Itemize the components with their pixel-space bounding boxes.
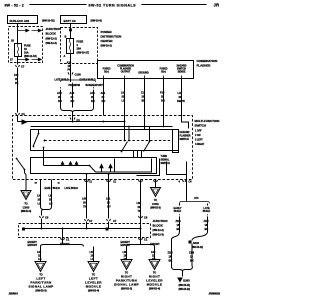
connector C7 b xyxy=(107,219,117,223)
export label right xyxy=(150,243,160,246)
hazard contact U wire xyxy=(167,162,187,175)
header right rule xyxy=(142,4,207,6)
svg-text:F32: F32 xyxy=(14,73,19,77)
node deck B tap right xyxy=(108,173,110,175)
off page triangle T1 xyxy=(40,250,42,262)
lever A1 xyxy=(33,130,40,148)
svg-text:TN: TN xyxy=(83,205,87,209)
wire L60 right label xyxy=(137,201,142,213)
except export label right xyxy=(121,241,131,247)
multi-function switch housing (dashed) xyxy=(13,116,193,180)
MFS pin wires to C7 pair xyxy=(86,174,88,219)
svg-text:G263: G263 xyxy=(183,279,190,283)
junction block lower housing (dashed) xyxy=(19,224,151,238)
flasher wire 3 label xyxy=(141,91,145,103)
svg-text:2 ON: 2 ON xyxy=(195,134,201,137)
wire T3 label xyxy=(123,250,128,261)
MFS pin C301 wire xyxy=(155,180,157,188)
merge L9 xyxy=(41,207,52,212)
alt wire b xyxy=(72,84,74,108)
PREMIUM label xyxy=(69,84,80,87)
svg-text:MULTI-FUNCTION: MULTI-FUNCTION xyxy=(195,119,220,123)
svg-text:SIGNAL LAMP: SIGNAL LAMP xyxy=(114,283,139,287)
node feed junction xyxy=(72,121,74,123)
svg-text:DB: DB xyxy=(161,99,165,103)
connector C100 xyxy=(68,72,81,76)
svg-text:(8W-10-2): (8W-10-2) xyxy=(101,44,112,48)
svg-text:(8W-10-27): (8W-10-27) xyxy=(77,51,90,55)
svg-text:B: B xyxy=(65,35,67,39)
pin A xyxy=(64,54,66,58)
flasher wire 4 label xyxy=(160,91,165,103)
svg-text:20A: 20A xyxy=(77,47,82,51)
branch arrow top a xyxy=(18,29,29,31)
svg-text:RD: RD xyxy=(91,99,95,103)
svg-text:(8W-12-2): (8W-12-2) xyxy=(46,37,57,41)
svg-text:RD: RD xyxy=(58,99,62,103)
wire fuse 2 output xyxy=(70,54,72,67)
svg-text:LG: LG xyxy=(49,202,53,206)
wire fuse 15 output xyxy=(17,57,19,65)
early/late pins xyxy=(40,180,42,193)
svg-text:DISTRIBUTION: DISTRIBUTION xyxy=(101,35,122,39)
off page triangle T4 xyxy=(154,250,156,260)
dashed bracket marks xyxy=(180,214,208,217)
early build label xyxy=(174,207,182,213)
svg-text:J988W-8: J988W-8 xyxy=(9,293,19,296)
svg-text:FUSE: FUSE xyxy=(24,44,31,48)
flasher wire 5 xyxy=(182,79,189,129)
wire from RUN-ACC to fuse 15 xyxy=(17,24,19,44)
connector C7 junction block xyxy=(16,65,25,69)
flasher wire 5 label xyxy=(177,91,185,103)
svg-text:(8W-52-3): (8W-52-3) xyxy=(150,207,161,210)
svg-text:(8W-12-16): (8W-12-16) xyxy=(24,54,37,58)
svg-text:Z1M: Z1M xyxy=(168,251,173,255)
split bracket right xyxy=(127,243,155,247)
svg-text:BATT A0: BATT A0 xyxy=(64,19,76,23)
svg-text:JUNCTION: JUNCTION xyxy=(46,27,61,31)
svg-text:SENSE: SENSE xyxy=(178,71,186,74)
lever A2 xyxy=(121,142,128,153)
wire A70 xyxy=(70,67,72,81)
svg-text:OUTPUT: OUTPUT xyxy=(121,71,131,74)
svg-text:RD: RD xyxy=(71,99,75,103)
svg-text:A70: A70 xyxy=(67,61,72,65)
ground wire b2 xyxy=(191,244,193,267)
fuse 15 xyxy=(15,44,22,57)
svg-text:BK: BK xyxy=(177,227,181,231)
alt wire c label xyxy=(90,91,95,103)
off page symbol C300 xyxy=(21,191,31,200)
svg-text:SWITCH: SWITCH xyxy=(161,162,170,165)
deck B up arrow 1 xyxy=(100,165,103,173)
wire feed battery horizontal xyxy=(18,121,125,123)
MFS ground pin ticks xyxy=(179,180,193,184)
flasher wire 2 label xyxy=(121,91,125,103)
flasher wire 1 label xyxy=(101,91,106,103)
hazard switch label xyxy=(180,131,191,141)
svg-text:1 OFF: 1 OFF xyxy=(195,130,202,133)
MFS pin C300 wire xyxy=(25,180,27,191)
pin label fused b+ 1 xyxy=(103,68,111,74)
corner footer left xyxy=(9,293,19,296)
connector C1 bottom right xyxy=(139,238,148,242)
svg-text:B(+): B(+) xyxy=(161,71,166,74)
ref 8W-10-8 xyxy=(91,19,102,23)
deck B lever step xyxy=(90,166,96,173)
svg-text:COMBINATION: COMBINATION xyxy=(197,59,218,63)
svg-text:(8W-12-3): (8W-12-3) xyxy=(153,233,164,237)
svg-text:(8W-52-3): (8W-52-3) xyxy=(35,289,46,293)
splice dot B+ xyxy=(69,29,72,32)
wire T2 label xyxy=(90,250,95,261)
deck B riser wire xyxy=(114,159,116,173)
svg-text:BK: BK xyxy=(142,99,146,103)
svg-text:EXPORT: EXPORT xyxy=(28,244,38,247)
combination flasher box xyxy=(98,61,194,79)
node A2b top xyxy=(128,126,130,128)
svg-text:EARLY BUILD: EARLY BUILD xyxy=(45,187,61,190)
deck B contact tick 1 xyxy=(61,162,63,166)
node flasher output junction xyxy=(103,121,105,123)
node RUN-ACC A31 xyxy=(8,16,38,24)
deck A-B pin stubs xyxy=(133,151,135,158)
wire lever A2 drop xyxy=(124,122,126,141)
C301 label xyxy=(150,199,161,210)
build bracket dashes xyxy=(61,83,94,108)
wire stalk down xyxy=(24,170,26,174)
svg-text:L61: L61 xyxy=(106,197,111,201)
svg-text:SIGNAL LAMP: SIGNAL LAMP xyxy=(28,285,53,289)
MFS pin ticks right pair xyxy=(139,180,158,182)
deck B bus wire xyxy=(44,165,90,167)
svg-text:L61: L61 xyxy=(37,250,42,254)
pin number blobs xyxy=(35,183,61,185)
svg-text:Z1M: Z1M xyxy=(189,251,194,255)
svg-text:FLASHER: FLASHER xyxy=(197,64,212,68)
junction dot xyxy=(124,121,126,123)
jog a xyxy=(172,232,180,240)
node BATT A0 xyxy=(61,16,87,24)
wire L61 label xyxy=(106,197,111,209)
svg-text:TN: TN xyxy=(138,209,142,213)
flasher wire 4 xyxy=(163,79,165,128)
switch deck A xyxy=(31,130,179,151)
svg-text:GY: GY xyxy=(107,205,111,209)
header center title xyxy=(89,4,137,8)
svg-text:(8W-52-4): (8W-52-4) xyxy=(88,289,99,293)
svg-text:A: A xyxy=(64,54,66,58)
connector C7 a xyxy=(85,219,93,223)
lever A3 xyxy=(144,141,151,152)
connector C8 right xyxy=(139,216,148,220)
svg-text:(8W-52-4): (8W-52-4) xyxy=(149,287,160,291)
fuse 2 label xyxy=(77,40,90,55)
splice S223 xyxy=(189,241,192,244)
combination flasher label xyxy=(197,59,218,68)
EARLY BUILD label xyxy=(80,79,96,82)
ref 8W-10-32 xyxy=(42,19,55,23)
BASE/EXPORT label xyxy=(86,84,104,87)
svg-text:LATE BUILD: LATE BUILD xyxy=(65,187,79,190)
wire A70 label xyxy=(67,61,72,72)
split bracket left xyxy=(41,241,84,247)
alt wire L9 b xyxy=(51,193,53,207)
svg-text:3 LEFT: 3 LEFT xyxy=(195,139,203,142)
svg-text:LATE BUILD: LATE BUILD xyxy=(55,79,69,82)
pin label ground xyxy=(138,72,149,75)
svg-text:BK: BK xyxy=(190,259,194,263)
deck B outer corner wire xyxy=(137,159,160,176)
junction block label xyxy=(46,27,61,45)
svg-text:BLOCK: BLOCK xyxy=(153,224,164,228)
svg-text:MODULE: MODULE xyxy=(147,283,163,287)
pin ticks xyxy=(85,180,93,184)
fuse 15 label xyxy=(24,44,37,59)
connector C8 left xyxy=(40,216,49,220)
except export label left xyxy=(28,241,38,247)
pin 27 xyxy=(10,58,13,62)
svg-text:L60: L60 xyxy=(137,201,142,205)
junction block bus xyxy=(24,228,141,230)
svg-text:Z1M: Z1M xyxy=(176,219,181,223)
header left rule xyxy=(30,4,87,6)
node deck B tap left xyxy=(86,173,88,175)
svg-text:L60: L60 xyxy=(82,197,87,201)
MFS pin wire to C8 right xyxy=(140,180,142,238)
svg-text:8W-52 TURN SIGNALS: 8W-52 TURN SIGNALS xyxy=(89,4,137,8)
svg-text:RD: RD xyxy=(102,99,106,103)
svg-text:A70: A70 xyxy=(70,91,75,95)
small label xyxy=(194,197,199,200)
svg-text:EARLY BUILD: EARLY BUILD xyxy=(80,79,96,82)
wire A3 drop xyxy=(149,127,151,142)
alt wire c xyxy=(93,90,95,108)
svg-text:A70: A70 xyxy=(57,91,62,95)
jog b xyxy=(192,232,208,241)
wire wiper to deck B xyxy=(43,148,45,166)
svg-text:LG: LG xyxy=(122,99,126,103)
ground G263 xyxy=(178,278,182,282)
wire lever A2b drop xyxy=(128,127,130,141)
wire F32 to multi-function switch xyxy=(17,68,19,113)
svg-text:10A: 10A xyxy=(24,51,29,55)
wire stalk jog xyxy=(25,173,27,180)
merged wire to MFS xyxy=(72,113,74,122)
alt wire a xyxy=(60,90,62,108)
corner footer right xyxy=(209,293,221,296)
svg-text:C300: C300 xyxy=(23,206,30,210)
ground wire a2 xyxy=(171,239,173,267)
junction block housing (dashed) xyxy=(9,27,43,63)
connector C1 left xyxy=(16,112,26,116)
connector C1 center xyxy=(70,118,80,123)
svg-text:CENTER: CENTER xyxy=(101,39,114,43)
svg-text:Z1M: Z1M xyxy=(204,219,209,223)
off page symbol C301 xyxy=(151,188,161,197)
deck B contact tick 2 xyxy=(69,162,71,166)
off page triangle T2 xyxy=(93,250,95,262)
svg-text:L41: L41 xyxy=(178,91,183,95)
branch arrow top b xyxy=(32,29,42,31)
wire feed left with arrow xyxy=(18,115,27,124)
pin label combination flasher output xyxy=(117,65,134,74)
svg-text:4 RIGHT: 4 RIGHT xyxy=(195,143,205,146)
flasher pin stubs xyxy=(104,76,182,79)
wire L60 label xyxy=(82,197,87,209)
wire F32 label xyxy=(14,73,19,85)
node wiper start xyxy=(44,140,46,142)
svg-text:JUNCTION: JUNCTION xyxy=(153,219,168,223)
svg-text:POWER: POWER xyxy=(101,30,113,34)
svg-text:(8W-12-2): (8W-12-2) xyxy=(153,228,164,232)
svg-text:A70: A70 xyxy=(90,91,95,95)
pin B xyxy=(65,35,67,39)
flasher wire 2 xyxy=(124,79,126,122)
ground wire a xyxy=(179,217,181,232)
svg-text:(8W-15-11): (8W-15-11) xyxy=(179,284,191,287)
multi-function switch label xyxy=(195,119,220,146)
node deck B bus end xyxy=(89,165,91,167)
svg-text:(8W-52-3): (8W-52-3) xyxy=(121,287,132,291)
svg-text:PK: PK xyxy=(15,81,19,85)
off page triangle T3 xyxy=(126,250,128,260)
wire T1 label xyxy=(37,250,42,261)
turn signal switch label xyxy=(161,155,170,165)
svg-text:LG: LG xyxy=(38,202,42,206)
svg-text:(8W-15-12): (8W-15-12) xyxy=(179,288,191,291)
svg-text:PREMIUM: PREMIUM xyxy=(69,84,80,87)
C300 label xyxy=(21,203,32,214)
splice square left xyxy=(22,228,25,231)
svg-text:F10: F10 xyxy=(160,91,165,95)
node A2b wiper xyxy=(128,140,130,142)
pin label fused b+ 2 xyxy=(160,68,168,74)
ground split bracket xyxy=(180,201,210,204)
alt wire a label xyxy=(57,91,62,103)
merge bracket xyxy=(61,108,94,113)
svg-text:A31: A31 xyxy=(101,91,106,95)
svg-text:MODULE: MODULE xyxy=(86,285,102,289)
header left title xyxy=(5,4,24,8)
svg-text:BUILD: BUILD xyxy=(174,210,182,213)
svg-text:JR8W6020: JR8W6020 xyxy=(209,293,221,296)
svg-text:(8W-12-3): (8W-12-3) xyxy=(46,41,57,45)
drop right xyxy=(140,229,142,245)
bus dots xyxy=(41,228,43,230)
alt wire L9 a xyxy=(40,193,42,207)
pin 28 xyxy=(11,39,14,43)
svg-text:(8W-10-8): (8W-10-8) xyxy=(91,19,102,23)
svg-text:C100: C100 xyxy=(75,73,82,77)
svg-text:8W - 52 - 2: 8W - 52 - 2 xyxy=(5,4,24,8)
svg-text:BUILD: BUILD xyxy=(203,210,211,213)
node A2 wiper xyxy=(124,140,126,142)
export label left xyxy=(60,243,70,246)
deck B contact tick 3 xyxy=(75,162,77,166)
wiper dashed xyxy=(45,140,171,142)
early build label small xyxy=(45,187,79,190)
pin label hazard switch sense xyxy=(177,65,187,74)
ground merge xyxy=(172,267,193,272)
branch arrow bottom b xyxy=(32,58,42,60)
svg-text:DB/PK: DB/PK xyxy=(177,99,185,103)
switch deck B xyxy=(31,158,157,174)
svg-text:(8W-10-32): (8W-10-32) xyxy=(42,19,55,23)
svg-text:SWITCH: SWITCH xyxy=(195,124,207,128)
ground wire exit xyxy=(186,175,188,183)
svg-text:BLOCK: BLOCK xyxy=(46,32,57,36)
header JR xyxy=(214,3,220,8)
deck B up arrow 2 xyxy=(109,165,112,173)
ground wire b xyxy=(207,217,209,232)
ATX BUILD label xyxy=(55,79,69,82)
alt wire b label xyxy=(70,91,75,103)
svg-text:GROUND: GROUND xyxy=(138,72,149,75)
build split bracket xyxy=(61,80,96,82)
svg-text:(8W-52-3): (8W-52-3) xyxy=(21,210,32,213)
svg-text:C301: C301 xyxy=(152,202,159,206)
connector C1 bottom left xyxy=(61,238,70,242)
svg-text:BASE/EXPORT: BASE/EXPORT xyxy=(86,84,104,87)
junction block lower label xyxy=(153,219,168,237)
drop left xyxy=(62,229,64,241)
svg-text:LG: LG xyxy=(38,257,42,261)
svg-text:RUN-ACC A31: RUN-ACC A31 xyxy=(10,19,30,23)
branch arrow bottom a xyxy=(18,58,29,60)
svg-text:BK: BK xyxy=(205,227,209,231)
wire BATT to fuse 2 xyxy=(70,24,72,39)
lever left stalk xyxy=(16,158,26,171)
svg-text:SWITCH: SWITCH xyxy=(180,138,189,141)
power distribution center housing (dashed) xyxy=(61,28,98,64)
hazard switch section xyxy=(173,130,179,153)
hazard feed wire xyxy=(31,126,173,128)
svg-text:L60: L60 xyxy=(151,250,156,254)
wire T4 label xyxy=(151,250,156,261)
ground wire from MFS xyxy=(186,183,188,201)
svg-text:ATC: ATC xyxy=(194,197,199,200)
svg-text:JR: JR xyxy=(214,3,220,8)
deck B lower bus wire xyxy=(96,159,152,173)
power distribution center label xyxy=(101,30,122,48)
flasher wire 3 xyxy=(144,79,146,130)
svg-text:S223: S223 xyxy=(193,241,199,245)
fuse 2 xyxy=(67,39,74,54)
svg-text:(8W-15-12): (8W-15-12) xyxy=(192,246,204,249)
svg-text:BK: BK xyxy=(169,259,173,263)
splice square right xyxy=(106,228,109,231)
flasher wire 1 xyxy=(103,79,105,116)
svg-text:B(+): B(+) xyxy=(104,71,109,74)
late build label xyxy=(203,207,211,213)
svg-text:FUSE: FUSE xyxy=(77,40,84,44)
